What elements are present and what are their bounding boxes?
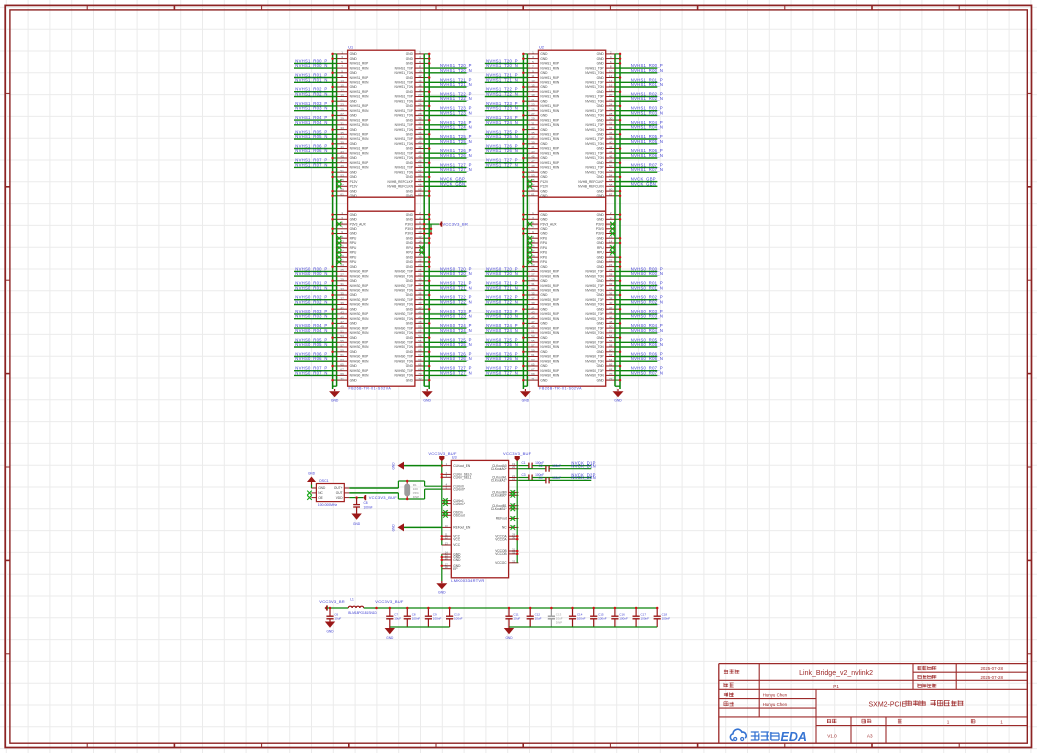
svg-text:EP: EP	[453, 567, 457, 571]
svg-text:NVHS0_R0P: NVHS0_R0P	[540, 284, 559, 288]
svg-text:GND: GND	[522, 398, 530, 402]
svg-text:GND: GND	[350, 156, 358, 160]
svg-text:45: 45	[340, 155, 344, 159]
svg-text:NVHS1_R0N: NVHS1_R0N	[350, 95, 369, 99]
svg-text:P12V: P12V	[350, 180, 359, 184]
svg-text:36: 36	[609, 292, 613, 296]
svg-text:64: 64	[418, 358, 422, 362]
svg-text:29: 29	[531, 117, 535, 121]
svg-text:GND: GND	[597, 265, 605, 269]
svg-text:GND: GND	[540, 322, 548, 326]
svg-text:NVHS0_R0N: NVHS0_R0N	[350, 289, 369, 293]
svg-text:NVHS1_T27_N: NVHS1_T27_N	[440, 167, 472, 172]
svg-text:55: 55	[340, 339, 344, 343]
svg-text:NVHS1_T25_N: NVHS1_T25_N	[486, 134, 518, 139]
svg-text:22: 22	[418, 259, 422, 263]
svg-text:NVHS1_R0N: NVHS1_R0N	[540, 166, 559, 170]
svg-text:NVHS1_R01_N: NVHS1_R01_N	[295, 77, 327, 82]
svg-text:GND: GND	[540, 142, 548, 146]
svg-text:GND: GND	[350, 350, 358, 354]
svg-text:66: 66	[418, 363, 422, 367]
svg-text:42: 42	[418, 145, 422, 149]
svg-text:NVHS0_T0N: NVHS0_T0N	[585, 274, 604, 278]
svg-text:61: 61	[340, 353, 344, 357]
svg-text:33: 33	[340, 126, 344, 130]
svg-text:GND: GND	[406, 161, 414, 165]
svg-text:GND: GND	[597, 62, 605, 66]
svg-text:58: 58	[609, 183, 613, 187]
svg-text:11: 11	[531, 74, 534, 78]
svg-text:NVHS1_T0N: NVHS1_T0N	[585, 142, 604, 146]
svg-text:NVHS0_T0N: NVHS0_T0N	[394, 317, 413, 321]
svg-text:58: 58	[418, 183, 422, 187]
svg-text:NVHS1_T20_N: NVHS1_T20_N	[486, 63, 518, 68]
svg-text:GND: GND	[350, 114, 358, 118]
svg-text:NVHS0_R0P: NVHS0_R0P	[540, 298, 559, 302]
svg-text:30: 30	[418, 117, 422, 121]
svg-text:P3V3: P3V3	[405, 222, 413, 226]
svg-text:GND: GND	[350, 364, 358, 368]
svg-text:GND: GND	[540, 279, 548, 283]
svg-text:62: 62	[418, 353, 422, 357]
svg-text:100nF: 100nF	[552, 476, 561, 480]
svg-text:43: 43	[531, 150, 535, 154]
svg-text:39: 39	[340, 301, 344, 305]
svg-text:NVHS1_R0P: NVHS1_R0P	[350, 118, 369, 122]
svg-text:NVHS1_R0N: NVHS1_R0N	[350, 166, 369, 170]
svg-text:GND: GND	[614, 398, 622, 402]
svg-text:GND: GND	[540, 99, 548, 103]
svg-text:P12V: P12V	[540, 180, 549, 184]
svg-text:26: 26	[418, 107, 422, 111]
svg-text:NVHS0_R03_N: NVHS0_R03_N	[631, 314, 663, 319]
svg-text:NVHS0_R07_N: NVHS0_R07_N	[295, 370, 327, 375]
svg-text:NVHS0_R0N: NVHS0_R0N	[350, 359, 369, 363]
svg-text:GND: GND	[392, 462, 396, 470]
svg-text:NVHS1_T23_N: NVHS1_T23_N	[486, 106, 518, 111]
svg-text:GND: GND	[308, 472, 316, 476]
svg-text:NVHS0_R0P: NVHS0_R0P	[350, 369, 369, 373]
svg-text:P3V3_AUX: P3V3_AUX	[350, 222, 367, 226]
svg-text:GND: GND	[406, 175, 414, 179]
svg-text:NVHS0_T25_N: NVHS0_T25_N	[486, 342, 518, 347]
svg-text:GND: GND	[597, 255, 605, 259]
svg-text:NVHS0_T0N: NVHS0_T0N	[585, 317, 604, 321]
svg-text:25: 25	[531, 107, 535, 111]
svg-text:NVHS1_T24_N: NVHS1_T24_N	[486, 120, 518, 125]
svg-text:39: 39	[531, 140, 535, 144]
svg-text:NVHS1_T0N: NVHS1_T0N	[394, 142, 413, 146]
svg-text:GND: GND	[438, 590, 446, 594]
svg-text:GND: GND	[597, 364, 605, 368]
svg-text:28: 28	[418, 273, 422, 277]
svg-text:NVHS1_R0P: NVHS1_R0P	[350, 147, 369, 151]
svg-text:26: 26	[609, 268, 613, 272]
svg-text:NVHS1_T0N: NVHS1_T0N	[585, 156, 604, 160]
svg-text:NVHS1_R07_N: NVHS1_R07_N	[295, 162, 327, 167]
svg-text:GND: GND	[350, 142, 358, 146]
svg-text:RPU: RPU	[406, 251, 413, 255]
svg-text:GND: GND	[540, 265, 548, 269]
svg-text:GND: GND	[540, 293, 548, 297]
svg-text:62: 62	[609, 353, 613, 357]
svg-text:GND: GND	[540, 350, 548, 354]
svg-text:C4: C4	[539, 476, 543, 480]
svg-text:21: 21	[340, 98, 344, 102]
svg-text:26: 26	[418, 268, 422, 272]
svg-text:38: 38	[609, 296, 613, 300]
svg-text:NVHS1_R0P: NVHS1_R0P	[540, 90, 559, 94]
svg-text:49: 49	[340, 164, 344, 168]
svg-text:59: 59	[531, 348, 535, 352]
svg-text:40: 40	[418, 301, 422, 305]
svg-text:GND: GND	[597, 161, 605, 165]
svg-text:NVHS0_R0P: NVHS0_R0P	[350, 326, 369, 330]
svg-text:10: 10	[418, 69, 422, 73]
svg-text:60: 60	[418, 188, 422, 192]
svg-text:GND: GND	[350, 336, 358, 340]
svg-text:NVHS1_T0P: NVHS1_T0P	[585, 109, 603, 113]
svg-text:NVHS0_R07_N: NVHS0_R07_N	[631, 370, 663, 375]
svg-text:GND: GND	[597, 241, 605, 245]
svg-text:30: 30	[418, 277, 422, 281]
svg-text:CLKin1*: CLKin1*	[453, 502, 465, 506]
svg-text:GND: GND	[406, 147, 414, 151]
svg-text:GND: GND	[540, 378, 548, 382]
svg-text:37: 37	[340, 136, 344, 140]
svg-text:28: 28	[418, 112, 422, 116]
svg-text:72: 72	[609, 377, 613, 381]
svg-text:NVHS0_T0N: NVHS0_T0N	[394, 359, 413, 363]
svg-text:33: 33	[531, 126, 535, 130]
svg-text:VCCOC: VCCOC	[495, 561, 507, 565]
svg-text:NVHS1_R0P: NVHS1_R0P	[540, 118, 559, 122]
svg-text:NVHS1_R0N: NVHS1_R0N	[540, 95, 559, 99]
svg-text:NVHS1_R0P: NVHS1_R0P	[350, 90, 369, 94]
svg-text:RPU: RPU	[540, 251, 547, 255]
svg-text:43: 43	[340, 150, 344, 154]
svg-text:NVHS0_R0P: NVHS0_R0P	[540, 312, 559, 316]
svg-text:CLKin_SEL1: CLKin_SEL1	[453, 476, 471, 480]
svg-text:NVHS0_T0N: NVHS0_T0N	[585, 374, 604, 378]
svg-text:GND: GND	[386, 636, 394, 640]
svg-text:GND: GND	[318, 486, 326, 490]
svg-text:NVHS0_T20_N: NVHS0_T20_N	[440, 271, 472, 276]
svg-text:NVHS0_R00_N: NVHS0_R00_N	[295, 271, 327, 276]
svg-text:49: 49	[340, 325, 344, 329]
svg-text:OSCout: OSCout	[453, 514, 464, 518]
svg-text:GND: GND	[392, 524, 396, 532]
svg-text:NVHS0_T26_N: NVHS0_T26_N	[486, 356, 518, 361]
svg-text:NVHS1_T0P: NVHS1_T0P	[395, 81, 413, 85]
svg-text:FB26B-TR-01-S02VA: FB26B-TR-01-S02VA	[349, 387, 392, 391]
svg-text:27: 27	[340, 273, 344, 277]
svg-text:GND: GND	[505, 636, 513, 640]
svg-text:24: 24	[418, 263, 422, 267]
svg-text:33: 33	[340, 287, 344, 291]
svg-text:24: 24	[609, 103, 613, 107]
svg-text:29: 29	[531, 277, 535, 281]
svg-text:NVHS0_T21_N: NVHS0_T21_N	[486, 285, 518, 290]
svg-text:NVHS1_R0N: NVHS1_R0N	[540, 123, 559, 127]
svg-text:19: 19	[340, 93, 344, 97]
svg-text:GND: GND	[597, 236, 605, 240]
svg-text:NVHS0_T22_N: NVHS0_T22_N	[486, 300, 518, 305]
svg-text:NVHS1_R0N: NVHS1_R0N	[540, 66, 559, 70]
svg-text:61: 61	[531, 192, 535, 196]
svg-text:NVHS0_T0N: NVHS0_T0N	[394, 303, 413, 307]
svg-text:100nF: 100nF	[577, 617, 586, 621]
svg-text:NVHS1_T0P: NVHS1_T0P	[585, 95, 603, 99]
svg-text:NVHS0_T0P: NVHS0_T0P	[585, 369, 603, 373]
svg-text:25: 25	[340, 268, 344, 272]
svg-text:NVHS0_R00_N: NVHS0_R00_N	[631, 271, 663, 276]
svg-text:GND: GND	[350, 378, 358, 382]
svg-text:53: 53	[531, 334, 535, 338]
svg-text:54: 54	[609, 174, 613, 178]
svg-text:44: 44	[609, 150, 613, 154]
svg-text:GND: GND	[406, 194, 414, 198]
svg-text:Hunyu Chen: Hunyu Chen	[763, 702, 788, 707]
svg-text:P12V: P12V	[350, 185, 359, 189]
svg-text:10uF: 10uF	[513, 617, 520, 621]
svg-text:NVHS1_R0P: NVHS1_R0P	[540, 76, 559, 80]
svg-text:NVHS1_T0N: NVHS1_T0N	[394, 71, 413, 75]
svg-text:NVHS1_T0P: NVHS1_T0P	[395, 66, 413, 70]
svg-text:GND: GND	[406, 350, 414, 354]
svg-text:CLKout_EN: CLKout_EN	[453, 464, 471, 468]
svg-text:NVHS0_T0P: NVHS0_T0P	[395, 326, 413, 330]
svg-text:GND: GND	[406, 57, 414, 61]
svg-text:NVHS0_R0P: NVHS0_R0P	[540, 326, 559, 330]
svg-text:NVHS0_T0N: NVHS0_T0N	[394, 289, 413, 293]
svg-text:NC: NC	[502, 526, 507, 530]
svg-text:NVHS1_T24_N: NVHS1_T24_N	[440, 125, 472, 130]
svg-text:100nF: 100nF	[662, 617, 671, 621]
svg-text:NC: NC	[318, 491, 323, 495]
svg-text:GND: GND	[540, 128, 548, 132]
svg-text:NVHS0_T21_N: NVHS0_T21_N	[440, 285, 472, 290]
svg-text:46: 46	[418, 155, 422, 159]
svg-text:52: 52	[418, 169, 422, 173]
svg-text:LMK00334RTVR: LMK00334RTVR	[451, 578, 484, 583]
svg-text:48: 48	[418, 159, 422, 163]
svg-text:NVHS0_T0N: NVHS0_T0N	[585, 303, 604, 307]
svg-text:RPU: RPU	[350, 241, 357, 245]
svg-text:36: 36	[418, 292, 422, 296]
svg-text:60: 60	[418, 348, 422, 352]
svg-text:71: 71	[531, 377, 535, 381]
svg-text:10uF: 10uF	[535, 617, 542, 621]
svg-text:GND: GND	[597, 133, 605, 137]
svg-text:GND: GND	[597, 336, 605, 340]
svg-text:NVHB_REFCLKP: NVHB_REFCLKP	[578, 180, 603, 184]
svg-text:100nF: 100nF	[433, 617, 442, 621]
svg-text:NVHS0_T0P: NVHS0_T0P	[585, 326, 603, 330]
svg-text:51: 51	[531, 169, 535, 173]
svg-text:50: 50	[418, 164, 422, 168]
svg-text:NVHS0_T0N: NVHS0_T0N	[394, 345, 413, 349]
svg-text:70: 70	[609, 372, 613, 376]
svg-text:1: 1	[947, 719, 950, 724]
svg-text:NVHS0_T0P: NVHS0_T0P	[395, 355, 413, 359]
svg-text:NVHS0_T0P: NVHS0_T0P	[395, 270, 413, 274]
svg-text:46: 46	[609, 315, 613, 319]
svg-text:34: 34	[418, 287, 422, 291]
svg-text:NVHS1_T26_N: NVHS1_T26_N	[440, 153, 472, 158]
svg-text:36: 36	[609, 131, 613, 135]
svg-text:NVHS1_T0N: NVHS1_T0N	[585, 85, 604, 89]
svg-text:NVHS0_R0P: NVHS0_R0P	[350, 312, 369, 316]
svg-text:RPU: RPU	[540, 241, 547, 245]
svg-text:64: 64	[609, 358, 613, 362]
svg-text:VCC3V3_BUF: VCC3V3_BUF	[503, 451, 532, 456]
svg-text:NVHS1_R06_N: NVHS1_R06_N	[295, 148, 327, 153]
svg-text:NVHS1_R05_N: NVHS1_R05_N	[295, 134, 327, 139]
svg-text:52: 52	[418, 330, 422, 334]
svg-text:2025-07-28: 2025-07-28	[980, 666, 1003, 671]
svg-text:NVCK_D1N: NVCK_D1N	[571, 464, 596, 469]
svg-text:GND: GND	[350, 99, 358, 103]
svg-text:OE: OE	[318, 496, 323, 500]
svg-text:GND: GND	[597, 350, 605, 354]
svg-text:NVHS0_R0N: NVHS0_R0N	[540, 317, 559, 321]
svg-text:NVHS0_T23_N: NVHS0_T23_N	[440, 314, 472, 319]
svg-text:32: 32	[609, 282, 613, 286]
svg-text:NVHB_REFCLKN: NVHB_REFCLKN	[387, 185, 413, 189]
svg-text:56: 56	[609, 339, 613, 343]
svg-text:NVHS1_T21_N: NVHS1_T21_N	[440, 82, 472, 87]
svg-text:GND: GND	[406, 218, 414, 222]
svg-text:61: 61	[531, 353, 535, 357]
svg-text:32: 32	[418, 121, 422, 125]
svg-text:C3: C3	[522, 473, 526, 477]
svg-text:RPU: RPU	[350, 260, 357, 264]
svg-text:GND: GND	[350, 218, 358, 222]
svg-text:VCC3V3_BUF: VCC3V3_BUF	[375, 599, 404, 604]
svg-text:21: 21	[531, 98, 535, 102]
svg-text:48: 48	[609, 159, 613, 163]
svg-text:NVHS1_T0P: NVHS1_T0P	[585, 151, 603, 155]
svg-text:22: 22	[418, 98, 422, 102]
svg-text:GND: GND	[406, 236, 414, 240]
svg-text:18: 18	[418, 88, 422, 92]
svg-text:40: 40	[609, 301, 613, 305]
svg-text:29: 29	[340, 277, 344, 281]
svg-text:GND: GND	[406, 307, 414, 311]
svg-text:NVHS1_R02_N: NVHS1_R02_N	[631, 96, 663, 101]
svg-text:72: 72	[418, 377, 422, 381]
svg-text:RPU: RPU	[350, 251, 357, 255]
svg-text:NVHB_REFCLKN: NVHB_REFCLKN	[578, 185, 604, 189]
svg-text:22: 22	[609, 98, 613, 102]
svg-text:NVHS1_T22_N: NVHS1_T22_N	[486, 92, 518, 97]
svg-text:58: 58	[418, 344, 422, 348]
svg-text:U1: U1	[348, 46, 353, 50]
svg-text:31: 31	[340, 121, 344, 125]
svg-text:NVHS1_T25_N: NVHS1_T25_N	[440, 139, 472, 144]
svg-text:GND: GND	[350, 194, 358, 198]
svg-text:54: 54	[418, 174, 422, 178]
svg-text:65: 65	[340, 363, 344, 367]
svg-text:10uF: 10uF	[394, 617, 401, 621]
svg-text:NVHS1_T0P: NVHS1_T0P	[395, 166, 413, 170]
svg-text:GND: GND	[406, 293, 414, 297]
svg-text:NVHS1_R0N: NVHS1_R0N	[350, 137, 369, 141]
svg-text:27: 27	[531, 273, 535, 277]
svg-text:24: 24	[418, 103, 422, 107]
svg-text:GND: GND	[350, 227, 358, 231]
svg-text:45: 45	[340, 315, 344, 319]
svg-text:NVHS1_T0N: NVHS1_T0N	[585, 99, 604, 103]
svg-text:20: 20	[609, 93, 613, 97]
svg-text:NVHS0_T0P: NVHS0_T0P	[585, 312, 603, 316]
svg-text:GND: GND	[350, 128, 358, 132]
svg-text:NVHS0_R06_N: NVHS0_R06_N	[631, 356, 663, 361]
svg-text:GND: GND	[423, 398, 431, 402]
svg-text:U3: U3	[452, 456, 457, 460]
svg-text:NVHS0_R0P: NVHS0_R0P	[350, 284, 369, 288]
svg-text:RPU: RPU	[540, 246, 547, 250]
svg-text:NVCK_GBN: NVCK_GBN	[440, 181, 465, 186]
svg-text:OUT+: OUT+	[334, 486, 343, 490]
svg-text:GND: GND	[350, 85, 358, 89]
svg-text:GND: GND	[540, 364, 548, 368]
svg-text:GND: GND	[597, 213, 605, 217]
svg-text:44: 44	[609, 311, 613, 315]
svg-text:55: 55	[531, 339, 535, 343]
svg-text:GND: GND	[597, 279, 605, 283]
svg-text:NVHS0_T23_N: NVHS0_T23_N	[486, 314, 518, 319]
svg-text:GND: GND	[597, 76, 605, 80]
svg-text:44: 44	[418, 311, 422, 315]
svg-text:59: 59	[340, 348, 344, 352]
svg-text:65: 65	[531, 363, 535, 367]
svg-text:68: 68	[609, 367, 613, 371]
svg-text:100nF: 100nF	[454, 617, 463, 621]
svg-text:39: 39	[531, 301, 535, 305]
svg-text:71: 71	[340, 377, 344, 381]
svg-text:10uF: 10uF	[334, 617, 341, 621]
svg-text:48: 48	[609, 320, 613, 324]
svg-text:NVHS0_T27_N: NVHS0_T27_N	[440, 370, 472, 375]
svg-text:14: 14	[418, 240, 422, 244]
svg-text:GND: GND	[406, 378, 414, 382]
svg-text:GND: GND	[540, 170, 548, 174]
svg-text:NVHS1_T0N: NVHS1_T0N	[585, 170, 604, 174]
svg-text:41: 41	[531, 145, 535, 149]
svg-text:GND: GND	[350, 232, 358, 236]
svg-text:47: 47	[531, 320, 535, 324]
svg-text:NVHS0_R0N: NVHS0_R0N	[540, 289, 559, 293]
svg-text:NVHB_REFCLKP: NVHB_REFCLKP	[388, 180, 413, 184]
svg-text:27: 27	[340, 112, 344, 116]
svg-text:12: 12	[418, 235, 422, 239]
svg-text:68: 68	[418, 367, 422, 371]
svg-text:GND: GND	[540, 307, 548, 311]
svg-text:NVHS0_T25_N: NVHS0_T25_N	[440, 342, 472, 347]
svg-text:NVHS1_T22_N: NVHS1_T22_N	[440, 96, 472, 101]
svg-text:57: 57	[340, 344, 344, 348]
svg-text:NVHS0_T0N: NVHS0_T0N	[585, 331, 604, 335]
svg-text:45: 45	[531, 315, 535, 319]
svg-text:GND: GND	[350, 189, 358, 193]
svg-text:28: 28	[609, 112, 613, 116]
svg-text:NVHS1_T0N: NVHS1_T0N	[394, 156, 413, 160]
svg-text:GND: GND	[597, 57, 605, 61]
svg-text:VCC3V3_BR: VCC3V3_BR	[443, 221, 469, 226]
svg-text:A3: A3	[867, 734, 873, 739]
